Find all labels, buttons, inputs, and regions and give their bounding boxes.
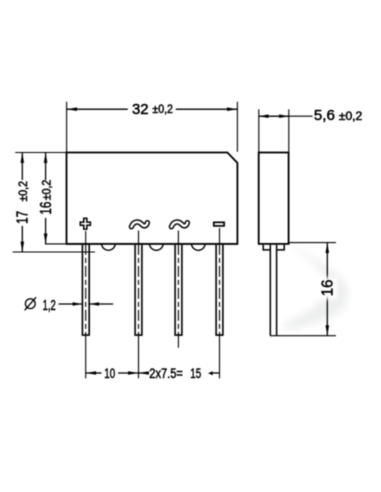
svg-text:16: 16 [320, 280, 337, 297]
svg-text:32: 32 [132, 101, 149, 118]
svg-text:±0,2: ±0,2 [152, 104, 173, 116]
svg-text:2x7.5=: 2x7.5= [149, 366, 183, 382]
svg-text:±0,2: ±0,2 [42, 180, 54, 201]
svg-text:±0,2: ±0,2 [18, 181, 30, 202]
svg-text:10: 10 [104, 366, 115, 382]
svg-text:16: 16 [38, 202, 55, 215]
svg-text:17: 17 [15, 211, 32, 224]
svg-text:15: 15 [190, 366, 201, 382]
svg-text:5,6: 5,6 [314, 107, 335, 124]
svg-text:±0,2: ±0,2 [339, 111, 363, 123]
svg-text:1,2: 1,2 [43, 297, 56, 314]
